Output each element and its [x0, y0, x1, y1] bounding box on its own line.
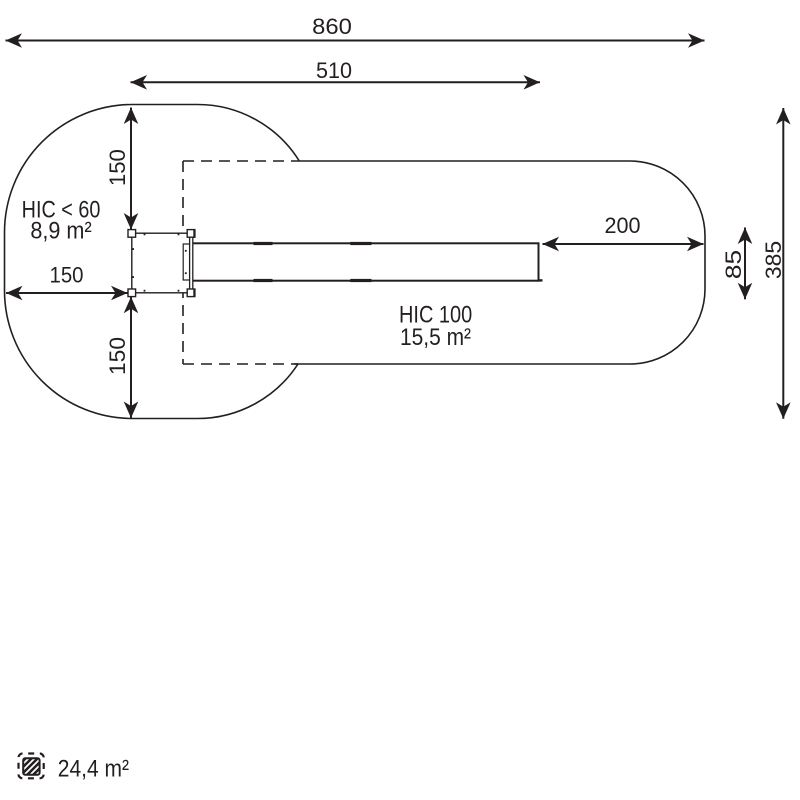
frame bolt dot 6 — [178, 290, 180, 292]
plate clamp bottom — [193, 289, 195, 297]
beam foot tick bottom 2 — [350, 279, 371, 282]
dimension 510 line — [131, 81, 541, 83]
svg-text:150: 150 — [105, 149, 130, 186]
dimension 200 left arrowhead — [543, 237, 560, 252]
svg-text:510: 510 — [316, 58, 352, 83]
frame bolt dot 2 — [178, 234, 180, 236]
frame bolt dot 1 — [144, 234, 146, 236]
balance beam body — [192, 243, 539, 280]
plate clamp top — [193, 230, 195, 238]
dimension 860 left arrowhead — [6, 33, 23, 48]
beam foot tick bottom 1 — [254, 279, 273, 282]
dashed hidden zone edge top — [183, 160, 299, 162]
dimension 150 top arrowhead down — [124, 213, 139, 230]
plate bolt dot top — [185, 250, 187, 252]
dashed hidden zone edge bottom — [183, 363, 298, 365]
dimension 150 bottom arrowhead up — [124, 297, 139, 314]
dimension 510 right arrowhead — [524, 75, 541, 90]
svg-text:150: 150 — [50, 262, 84, 287]
frame bolt dot 5 — [144, 290, 146, 292]
dimension 200 line — [543, 243, 704, 245]
svg-text:860: 860 — [312, 14, 352, 39]
area icon hatched square — [0, 752, 62, 780]
frame bolt dot 4 — [132, 276, 134, 278]
dimension 150 bottom vertical line — [130, 297, 132, 418]
dimension 200 right arrowhead — [687, 237, 704, 252]
svg-text:24,4 m²: 24,4 m² — [58, 755, 129, 782]
dashed hidden zone edge left — [182, 161, 184, 364]
dimension 85 vertical line — [744, 228, 746, 300]
svg-text:8,9 m²: 8,9 m² — [30, 218, 91, 245]
dimension 150 horizontal right arrowhead — [111, 286, 128, 301]
dimension 150 bottom arrowhead down — [124, 402, 139, 419]
dimension 385 arrowhead up — [776, 108, 791, 125]
safety zone outline HIC<60 left blob — [5, 105, 300, 419]
dimension 150 top vertical line — [130, 108, 132, 230]
beam hidden left section — [183, 244, 192, 280]
end plate — [190, 237, 193, 290]
area icon dashed square — [19, 754, 44, 779]
climbing frame square — [132, 233, 191, 293]
post bottom-right — [187, 289, 195, 297]
dimension 510 left arrowhead — [131, 75, 148, 90]
dimension 385 vertical line — [782, 108, 784, 419]
dimension 385 arrowhead down — [776, 402, 791, 419]
dimension 860 right arrowhead — [688, 33, 705, 48]
dimension 85 arrowhead up — [738, 228, 753, 245]
dimension 150 horizontal line — [6, 292, 128, 294]
beam end bottom lip — [538, 279, 543, 281]
post top-left — [128, 230, 136, 238]
frame bolt dot 3 — [132, 248, 134, 250]
svg-text:15,5 m²: 15,5 m² — [400, 324, 471, 351]
dimension 150 top arrowhead up — [124, 108, 139, 125]
dimension 85 arrowhead down — [738, 283, 753, 300]
safety zone outline HIC 100 right stadium — [294, 161, 705, 364]
dimension 150 horizontal left arrowhead — [6, 286, 23, 301]
plate bolt dot bottom — [185, 272, 187, 274]
beam foot tick top 2 — [350, 242, 371, 245]
svg-text:200: 200 — [605, 213, 641, 238]
dimension 860 line — [6, 40, 705, 42]
post bottom-left — [128, 289, 136, 297]
svg-text:385: 385 — [761, 241, 786, 279]
post top-right — [187, 230, 195, 238]
beam foot tick top 1 — [254, 242, 273, 245]
svg-text:150: 150 — [105, 337, 130, 375]
svg-text:85: 85 — [721, 250, 746, 279]
